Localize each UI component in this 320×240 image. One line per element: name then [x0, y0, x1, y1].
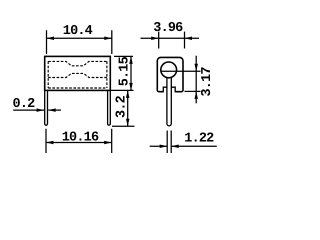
dim 0.2 left arrow	[37, 108, 45, 112]
dim 5.15 bottom arrow	[129, 83, 133, 91]
dim 3.96 extension lines	[159, 32, 185, 49]
element dashed upper line with centre dip	[48, 61, 107, 65]
dim 1.22 right arrow	[171, 145, 179, 149]
disc circle	[161, 62, 177, 78]
inner dashed cavity bottom edge	[48, 87, 107, 89]
svg-text:10.16: 10.16	[62, 130, 99, 145]
dim 5.15 / 3.2 shared extension (body bottom)	[110, 89, 133, 91]
dim 3.2 line	[127, 90, 129, 126]
dim 3.17 top arrow	[194, 64, 198, 71]
dim 10.4 left arrow	[47, 37, 55, 41]
dim 10.16 extension lines	[46, 129, 112, 153]
dim 3.96 right arrow	[185, 36, 193, 40]
svg-text:3.96: 3.96	[153, 21, 183, 36]
dim 10.16 line	[46, 142, 112, 144]
dim 10.4 right arrow	[104, 37, 112, 41]
inner dashed cavity right edge	[106, 61, 108, 88]
dim 1.22 extension lines	[167, 131, 171, 154]
left lead	[45, 90, 48, 125]
lead (side view, from disc through case bottom)	[167, 77, 171, 126]
svg-text:1.22: 1.22	[184, 132, 214, 147]
right lead	[108, 90, 111, 125]
dim 1.22 right leader	[171, 145, 217, 147]
case bottom right step	[171, 87, 175, 92]
dim 3.17 bottom arrow	[194, 91, 198, 99]
dim 5.15 top extension tick	[114, 55, 133, 57]
svg-text:3.2: 3.2	[114, 95, 129, 118]
dim 0.2 right leader	[48, 109, 61, 111]
case outline with stepped bottom	[157, 57, 183, 91]
svg-text:10.4: 10.4	[63, 24, 93, 39]
dim 10.16 left arrow	[46, 141, 54, 145]
dim 3.17 line	[195, 56, 197, 104]
dim 3.96 line	[141, 37, 200, 39]
dim 5.15 top arrow	[129, 56, 133, 64]
svg-text:3.17: 3.17	[200, 67, 215, 97]
centre line through disc	[161, 70, 201, 72]
case bottom edge extension	[185, 90, 201, 92]
dim 3.2 top arrow	[126, 90, 130, 98]
dim 0.2 left leader	[13, 109, 44, 111]
dim 0.2 right arrow	[48, 108, 56, 112]
case bottom left step	[163, 87, 167, 92]
dim 10.4 line	[47, 37, 112, 39]
dim 1.22 left leader	[150, 145, 168, 147]
dim 5.15 line	[130, 56, 132, 90]
dim 3.2 bottom arrow	[126, 119, 130, 127]
body outline	[45, 56, 111, 90]
dim 3.96 left arrow	[151, 36, 159, 40]
element dashed lower line with centre bump	[48, 73, 107, 77]
dim 1.22 left arrow	[160, 145, 168, 149]
dim 3.2 bottom extension tick	[112, 125, 135, 127]
svg-text:5.15: 5.15	[117, 56, 132, 86]
inner dashed cavity left edge	[47, 61, 49, 88]
dim 10.4 extension lines	[47, 30, 112, 54]
dim 10.16 right arrow	[104, 141, 112, 145]
